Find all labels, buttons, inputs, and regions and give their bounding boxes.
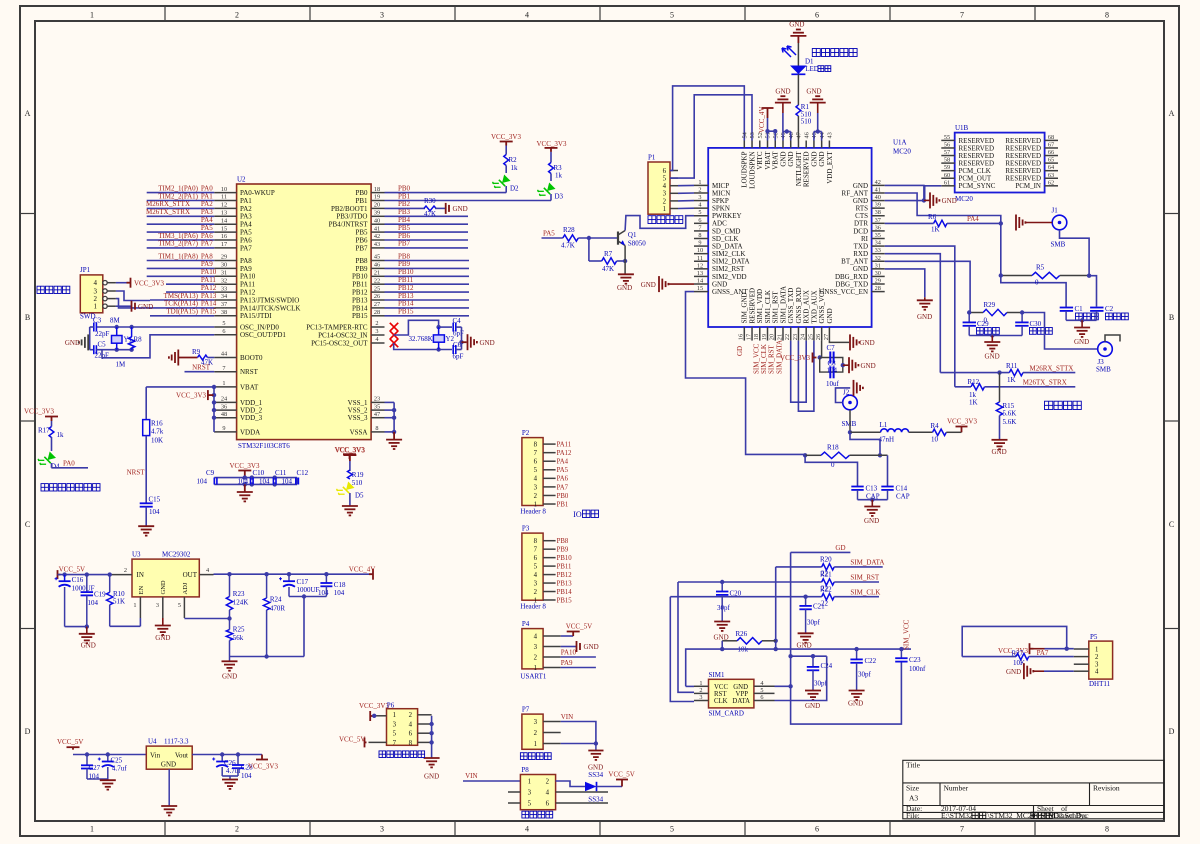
- svg-text:OSC_OUT/PD1: OSC_OUT/PD1: [240, 331, 286, 339]
- svg-text:33: 33: [875, 247, 881, 254]
- svg-text:0: 0: [1035, 279, 1039, 287]
- wire: [116, 305, 131, 307]
- connector J2 SMB: [843, 395, 858, 410]
- svg-text:5: 5: [670, 11, 674, 20]
- svg-text:34: 34: [221, 293, 228, 300]
- wire U4 gnd: [168, 769, 170, 806]
- svg-text:GND: GND: [826, 308, 834, 323]
- resistor R23: [229, 574, 231, 596]
- svg-text:2: 2: [663, 198, 667, 205]
- svg-text:PB3/JTDO: PB3/JTDO: [336, 213, 367, 221]
- svg-text:TCK(PA14): TCK(PA14): [164, 300, 199, 308]
- wire R12 row: [955, 386, 971, 388]
- svg-text:PA7: PA7: [240, 244, 252, 252]
- capacitor C29: [968, 313, 970, 323]
- svg-text:PB2: PB2: [398, 200, 411, 208]
- svg-text:29: 29: [875, 278, 881, 285]
- svg-text:R23: R23: [233, 590, 245, 598]
- crystal Y2: [433, 335, 444, 342]
- resistor R5: [1001, 275, 1032, 277]
- ground: [138, 526, 154, 535]
- junction: [999, 273, 1003, 277]
- capacitor C12: [296, 478, 299, 485]
- svg-text:12: 12: [221, 202, 227, 209]
- no-connect PC15: [390, 339, 398, 347]
- wire: [116, 299, 150, 308]
- svg-text:MC20: MC20: [893, 148, 911, 156]
- svg-text:64: 64: [1048, 164, 1055, 171]
- svg-text:7: 7: [222, 365, 225, 372]
- svg-text:GND: GND: [160, 580, 167, 594]
- svg-text:2: 2: [534, 730, 538, 737]
- svg-text:15: 15: [221, 225, 227, 232]
- label P7 CJK: [520, 753, 527, 760]
- svg-text:PB9: PB9: [557, 547, 569, 554]
- svg-text:5: 5: [760, 687, 763, 694]
- svg-text:VDD_EXT: VDD_EXT: [826, 151, 834, 184]
- svg-text:C30: C30: [1030, 320, 1042, 328]
- svg-text:68: 68: [1048, 134, 1054, 141]
- svg-text:Vout: Vout: [175, 752, 188, 760]
- svg-text:1: 1: [534, 501, 537, 508]
- wire: [550, 152, 552, 163]
- svg-text:1000UF: 1000UF: [297, 586, 320, 594]
- wire: [456, 326, 462, 328]
- svg-text:10: 10: [931, 436, 939, 444]
- wire: [550, 194, 552, 201]
- svg-text:D1: D1: [805, 58, 814, 66]
- svg-text:CLK: CLK: [714, 698, 728, 705]
- svg-text:19: 19: [374, 194, 380, 201]
- svg-text:41: 41: [374, 225, 380, 232]
- svg-text:C19: C19: [94, 591, 106, 599]
- svg-text:SIM1: SIM1: [709, 671, 725, 679]
- junction: [227, 616, 231, 620]
- svg-text:VSSA: VSSA: [350, 428, 368, 436]
- svg-text:C29: C29: [977, 320, 989, 328]
- svg-text:61: 61: [944, 179, 950, 186]
- junction: [870, 498, 874, 502]
- wire: [116, 282, 129, 284]
- wire: [145, 436, 147, 504]
- svg-text:1k: 1k: [511, 164, 519, 172]
- svg-text:PB15: PB15: [557, 597, 573, 604]
- svg-text:PA4: PA4: [201, 216, 213, 224]
- svg-text:PA0: PA0: [201, 184, 213, 192]
- resistor R20: [822, 564, 835, 570]
- connector P4: [522, 629, 543, 669]
- svg-text:VCC_5V: VCC_5V: [339, 735, 365, 743]
- svg-text:GND: GND: [453, 205, 468, 213]
- svg-text:34: 34: [875, 240, 882, 247]
- wire: [909, 431, 933, 433]
- svg-text:VDDA: VDDA: [240, 428, 260, 436]
- wire: [775, 656, 827, 700]
- connector P1: [648, 162, 670, 214]
- wire P1-SPKP: [678, 200, 694, 202]
- svg-text:6: 6: [409, 731, 413, 738]
- wire C24 branch: [791, 655, 827, 657]
- svg-text:R30: R30: [424, 197, 436, 205]
- svg-text:PA14: PA14: [201, 300, 217, 308]
- svg-text:M26TX_STRX: M26TX_STRX: [146, 208, 190, 216]
- junction: [115, 348, 119, 352]
- svg-text:4: 4: [1095, 669, 1099, 676]
- wire NRST: [185, 371, 215, 373]
- ground: [169, 350, 178, 366]
- junction: [1080, 318, 1084, 322]
- svg-text:VCC_3V3: VCC_3V3: [24, 408, 54, 416]
- wire: [834, 596, 879, 598]
- svg-text:67: 67: [1048, 141, 1054, 148]
- svg-text:GND: GND: [1006, 668, 1021, 676]
- svg-text:M26TX_STRX: M26TX_STRX: [1023, 378, 1067, 386]
- wire GND 42/40: [885, 185, 924, 200]
- svg-text:1: 1: [1095, 646, 1098, 653]
- svg-text:PB14: PB14: [557, 589, 573, 596]
- svg-text:36: 36: [221, 403, 227, 410]
- svg-text:47: 47: [796, 132, 803, 138]
- resistor R16: [143, 420, 150, 436]
- svg-text:20: 20: [374, 202, 380, 209]
- svg-text:PB12: PB12: [352, 289, 368, 297]
- svg-text:5: 5: [670, 825, 674, 834]
- junction: [459, 340, 463, 344]
- svg-text:7: 7: [534, 450, 538, 457]
- LED D4: [36, 449, 56, 469]
- svg-text:PB8: PB8: [355, 257, 368, 265]
- junction: [220, 752, 224, 756]
- svg-text:32: 32: [221, 277, 227, 284]
- svg-text:PA10: PA10: [240, 273, 256, 281]
- svg-text:PB6: PB6: [355, 236, 368, 244]
- svg-text:2: 2: [235, 11, 239, 20]
- svg-text:5: 5: [698, 209, 701, 216]
- power VCC_4V: [369, 569, 373, 580]
- svg-text:R2: R2: [509, 156, 518, 164]
- svg-text:VSS_3: VSS_3: [348, 414, 368, 422]
- svg-text:2: 2: [375, 320, 378, 327]
- wire: [561, 722, 596, 744]
- svg-text:GND: GND: [992, 448, 1007, 456]
- svg-text:PA2: PA2: [201, 200, 213, 208]
- resistor R24: [266, 574, 268, 598]
- svg-text:GND: GND: [480, 339, 495, 347]
- svg-text:PA8: PA8: [201, 252, 213, 260]
- svg-text:C15: C15: [149, 496, 161, 504]
- svg-text:PA6: PA6: [201, 232, 213, 240]
- wire C14 branch: [887, 455, 889, 486]
- svg-text:PB12: PB12: [557, 572, 573, 579]
- svg-text:D2: D2: [510, 185, 519, 193]
- svg-text:D: D: [1169, 727, 1175, 736]
- capacitor C18: [325, 574, 327, 583]
- svg-text:1: 1: [534, 741, 537, 748]
- svg-text:J2: J2: [843, 389, 850, 397]
- wire: [670, 596, 821, 598]
- svg-text:NRST: NRST: [127, 469, 146, 477]
- wire: [561, 646, 576, 648]
- svg-text:C13: C13: [866, 485, 878, 493]
- wire PB0: [385, 192, 507, 194]
- svg-text:VCC: VCC: [714, 684, 728, 691]
- power VCC_3V3: [208, 390, 214, 400]
- svg-text:1117-3.3: 1117-3.3: [164, 738, 189, 746]
- svg-text:13: 13: [697, 270, 703, 277]
- svg-text:8: 8: [534, 442, 538, 449]
- svg-text:C22: C22: [865, 657, 877, 665]
- svg-text:PA7: PA7: [1037, 649, 1049, 657]
- svg-text:8M: 8M: [110, 317, 121, 325]
- svg-text:3: 3: [528, 789, 532, 796]
- resistor R1: [796, 105, 801, 116]
- svg-text:26: 26: [374, 293, 380, 300]
- svg-text:PA3: PA3: [201, 208, 213, 216]
- svg-text:P5: P5: [1090, 633, 1098, 641]
- capacitor C30: [1021, 313, 1023, 323]
- wire DTR: [885, 222, 934, 224]
- ground: [1016, 215, 1025, 231]
- svg-text:SMB: SMB: [1096, 366, 1111, 374]
- svg-text:PB10: PB10: [352, 273, 368, 281]
- svg-text:16: 16: [738, 334, 745, 340]
- svg-text:104: 104: [827, 366, 838, 374]
- svg-text:PA12: PA12: [557, 450, 572, 457]
- svg-text:C14: C14: [896, 485, 908, 493]
- svg-text:PA13: PA13: [201, 292, 217, 300]
- svg-text:U1B: U1B: [955, 124, 969, 132]
- svg-text:M26RX_STTX: M26RX_STTX: [1030, 364, 1074, 372]
- resistor R15: [999, 373, 1001, 402]
- svg-text:VPP: VPP: [736, 691, 749, 698]
- svg-text:D5: D5: [355, 492, 364, 500]
- svg-text:100nf: 100nf: [909, 665, 926, 673]
- svg-text:28: 28: [875, 285, 881, 292]
- ground: [714, 622, 730, 631]
- wire J2 shell gnd: [836, 388, 851, 403]
- power VCC_5V: [616, 780, 628, 787]
- resistor R11: [1009, 369, 1023, 375]
- capacitor C15: [140, 503, 153, 506]
- svg-text:57: 57: [944, 149, 950, 156]
- junction: [372, 714, 376, 718]
- wire: [145, 507, 147, 527]
- ground: [229, 657, 231, 662]
- svg-text:11: 11: [697, 255, 703, 262]
- ground: [854, 380, 863, 396]
- svg-text:33: 33: [221, 285, 227, 292]
- svg-text:PB0: PB0: [557, 493, 569, 500]
- svg-text:PB13: PB13: [398, 292, 414, 300]
- border zone ticks: [164, 6, 166, 21]
- svg-text:3: 3: [393, 721, 397, 728]
- svg-text:PA4: PA4: [557, 459, 569, 466]
- svg-text:35: 35: [875, 232, 881, 239]
- junction: [115, 325, 119, 329]
- junction: [85, 624, 89, 628]
- svg-text:GND: GND: [65, 339, 80, 347]
- svg-text:PB6: PB6: [398, 232, 411, 240]
- capacitor C20: [721, 582, 723, 591]
- svg-text:8: 8: [1105, 11, 1109, 20]
- svg-text:104: 104: [197, 478, 208, 486]
- svg-text:41: 41: [875, 186, 881, 193]
- wire: [858, 499, 888, 501]
- wire Q1 collector: [625, 216, 694, 231]
- svg-text:44: 44: [221, 351, 228, 358]
- power VCC_3V3: [343, 454, 356, 459]
- wire: [90, 326, 94, 328]
- svg-text:14: 14: [697, 278, 704, 285]
- svg-text:5: 5: [663, 176, 667, 183]
- wire: [686, 685, 694, 687]
- svg-text:7: 7: [698, 224, 701, 231]
- svg-text:VIN: VIN: [465, 772, 477, 780]
- svg-text:23: 23: [792, 334, 799, 340]
- svg-text:1000UF: 1000UF: [72, 584, 95, 592]
- LED D1: [790, 66, 807, 75]
- svg-text:GND: GND: [861, 362, 876, 370]
- svg-text:D3: D3: [555, 193, 564, 201]
- svg-text:3: 3: [375, 328, 378, 335]
- svg-text:USART1: USART1: [520, 673, 547, 681]
- wire TXD: [885, 246, 955, 387]
- connector P6: [387, 709, 418, 746]
- svg-text:R26: R26: [736, 630, 748, 638]
- ground: [618, 274, 634, 283]
- svg-text:6pF: 6pF: [453, 353, 464, 361]
- svg-text:R11: R11: [1006, 362, 1018, 370]
- no-connect PC13: [390, 323, 398, 331]
- svg-text:59: 59: [944, 164, 950, 171]
- capacitor C7: [830, 352, 833, 364]
- svg-text:21: 21: [776, 334, 783, 340]
- junction: [818, 355, 822, 359]
- svg-text:15: 15: [697, 285, 703, 292]
- svg-text:PB8: PB8: [557, 538, 569, 545]
- svg-text:6: 6: [815, 11, 819, 20]
- svg-text:R20: R20: [820, 556, 832, 564]
- wire: [946, 431, 961, 433]
- wire: [775, 685, 791, 687]
- junction: [990, 333, 994, 337]
- svg-text:SS34: SS34: [588, 771, 603, 779]
- svg-text:56: 56: [944, 141, 950, 148]
- wires U2 PA0-PA15: [147, 192, 215, 194]
- svg-text:3: 3: [380, 825, 384, 834]
- wire: [561, 635, 574, 637]
- svg-text:25: 25: [807, 334, 814, 340]
- resistor R4: [933, 429, 947, 435]
- svg-text:PA10: PA10: [201, 268, 217, 276]
- capacitor C21: [805, 597, 807, 606]
- wire: [1060, 230, 1090, 276]
- svg-text:PA6: PA6: [557, 476, 569, 483]
- svg-text:C17: C17: [297, 578, 309, 586]
- svg-text:5: 5: [178, 602, 181, 609]
- wire RF_ANT: [885, 193, 1066, 307]
- wire: [561, 656, 596, 658]
- svg-text:3: 3: [156, 602, 159, 609]
- wire: [349, 493, 351, 506]
- junction: [243, 475, 247, 479]
- svg-text:PB4/JNTRST: PB4/JNTRST: [329, 221, 369, 229]
- svg-text:24: 24: [800, 333, 807, 340]
- svg-text:38: 38: [875, 209, 881, 216]
- svg-text:PB1: PB1: [557, 501, 569, 508]
- svg-text:PA6: PA6: [240, 236, 252, 244]
- svg-text:PA4: PA4: [240, 221, 252, 229]
- svg-text:PA10: PA10: [561, 649, 577, 657]
- wire GND31: [885, 269, 925, 297]
- wire PB2: [385, 207, 426, 209]
- svg-text:GND: GND: [864, 517, 879, 525]
- svg-text:M26RX_STTX: M26RX_STTX: [146, 200, 190, 208]
- svg-text:TIM1_1(PA8): TIM1_1(PA8): [158, 252, 198, 260]
- ground: [161, 806, 177, 815]
- wire: [617, 260, 626, 262]
- wire GD vertical: [791, 552, 902, 724]
- junction: [264, 654, 268, 658]
- connector SIM1 SIM_CARD: [709, 679, 754, 708]
- svg-text:SIM_VCC: SIM_VCC: [903, 619, 911, 650]
- svg-text:7: 7: [534, 547, 538, 554]
- junction: [841, 363, 845, 367]
- svg-text:C5: C5: [98, 341, 107, 349]
- svg-text:STM32F103C8T6: STM32F103C8T6: [238, 442, 290, 450]
- IC U1A MC20: [708, 148, 871, 327]
- svg-text:6: 6: [546, 800, 550, 807]
- wire: [505, 146, 507, 155]
- power VCC_3V3: [45, 417, 58, 422]
- junction: [392, 408, 396, 412]
- svg-text:File:: File:: [906, 811, 920, 820]
- svg-text:30pf: 30pf: [717, 604, 731, 612]
- svg-text:C18: C18: [334, 581, 346, 589]
- svg-text:3: 3: [380, 11, 384, 20]
- wire: [561, 743, 596, 745]
- resistor R8: [131, 327, 133, 337]
- capacitor C10: [251, 478, 254, 485]
- wire SIM_VCC rail: [686, 649, 911, 686]
- svg-text:PA9: PA9: [201, 260, 213, 268]
- svg-text:C3: C3: [93, 317, 102, 325]
- svg-text:PA2: PA2: [240, 205, 252, 213]
- svg-text:27: 27: [823, 334, 830, 340]
- svg-text:65: 65: [1048, 157, 1054, 164]
- wire: [435, 207, 446, 209]
- svg-text:L1: L1: [880, 421, 888, 429]
- svg-text:PA5: PA5: [201, 224, 213, 232]
- svg-text:4: 4: [663, 183, 667, 190]
- label audio CJK: [648, 216, 656, 224]
- ground: [107, 779, 109, 780]
- svg-text:GND: GND: [222, 673, 237, 681]
- ground: [843, 364, 849, 366]
- wire GNSS loop2: [798, 341, 814, 412]
- title block: [903, 760, 1164, 819]
- resistor R12: [971, 384, 985, 390]
- svg-text:Size: Size: [906, 784, 920, 793]
- svg-text:6: 6: [534, 555, 538, 562]
- svg-text:4.7k: 4.7k: [151, 428, 164, 436]
- ground: [924, 297, 926, 300]
- junction: [302, 594, 306, 598]
- wire: [65, 626, 87, 628]
- ground: [924, 199, 930, 201]
- svg-text:PB11: PB11: [398, 276, 414, 284]
- svg-text:5.6K: 5.6K: [1003, 410, 1017, 418]
